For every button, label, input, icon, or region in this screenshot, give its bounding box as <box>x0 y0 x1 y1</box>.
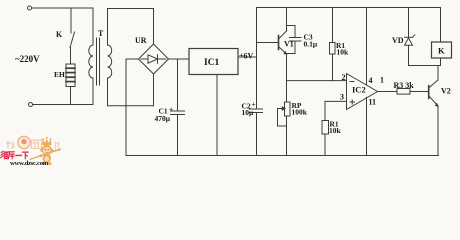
heater EH <box>66 64 75 105</box>
svg-text:4: 4 <box>369 76 373 85</box>
watermark mascot <box>30 137 62 165</box>
svg-text:V2: V2 <box>441 87 451 96</box>
svg-text:10k: 10k <box>329 126 342 135</box>
svg-text:K: K <box>56 30 63 39</box>
transformer T secondary <box>108 9 112 106</box>
wire collector node <box>409 65 441 67</box>
svg-text:UR: UR <box>135 36 147 45</box>
svg-text:K: K <box>438 46 445 56</box>
watermark faded background glyphs <box>6 140 42 149</box>
capacitor C1 <box>171 59 185 156</box>
svg-text:11: 11 <box>369 98 377 107</box>
svg-text:10μ: 10μ <box>242 108 255 117</box>
wire bottom rail 220V <box>33 104 94 106</box>
svg-text:2: 2 <box>342 73 346 82</box>
svg-text:470μ: 470μ <box>155 114 171 123</box>
wire DC plus to IC1 <box>169 58 190 60</box>
svg-text:R3 3k: R3 3k <box>394 81 415 90</box>
wire pin11 to ground <box>366 97 368 155</box>
switch K <box>70 8 75 64</box>
svg-text:T: T <box>98 29 104 38</box>
wire node pin3 bus <box>325 100 347 102</box>
svg-text:100k: 100k <box>292 108 308 117</box>
relay K <box>432 8 452 66</box>
svg-text:V1: V1 <box>284 40 294 49</box>
wire node pin2 bus <box>287 80 347 82</box>
capacitor C3 <box>287 26 302 54</box>
transistor V2 <box>429 66 438 156</box>
wire secondary top to bridge <box>108 9 154 45</box>
svg-text:~220V: ~220V <box>15 54 40 64</box>
wire IC1 ground lead <box>216 75 218 156</box>
regulator IC1 <box>189 49 238 75</box>
wire DC minus to ground rail <box>126 59 139 156</box>
transistor V1 <box>257 8 287 103</box>
wire pin1 output <box>378 91 398 93</box>
svg-text:EH: EH <box>54 70 65 79</box>
svg-text:3: 3 <box>340 92 344 101</box>
transformer core <box>96 38 98 85</box>
svg-text:IC1: IC1 <box>204 58 220 68</box>
svg-text:IC2: IC2 <box>352 85 366 95</box>
svg-text:0.1μ: 0.1μ <box>304 40 318 49</box>
svg-text:VD: VD <box>392 36 404 45</box>
wire pin4 to +6V <box>366 8 368 86</box>
potentiometer RP <box>278 102 291 156</box>
wire bridge bottom lead <box>153 74 155 106</box>
terminal bottom-left <box>29 103 33 107</box>
svg-text:10k: 10k <box>337 48 350 57</box>
watermark extra faded marks <box>54 142 60 151</box>
watermark logo circle <box>18 136 30 148</box>
wire IC1 output +6V <box>238 56 257 58</box>
resistor R1 lower <box>322 101 329 155</box>
resistor R3 <box>397 89 429 95</box>
resistor R1 upper <box>330 8 336 81</box>
svg-text:+: + <box>169 105 173 114</box>
wire +6V top rail <box>257 7 441 9</box>
transformer T primary <box>89 8 93 105</box>
wire secondary bottom to bridge <box>108 105 154 107</box>
watermark red text wei-ku-yi-xia <box>1 151 29 159</box>
ground rail <box>126 155 439 157</box>
op-amp IC2 <box>347 74 378 110</box>
diode VD <box>405 8 415 66</box>
svg-text:1: 1 <box>380 76 384 85</box>
svg-text:+6V: +6V <box>239 52 254 61</box>
wire +6V vertical rail <box>256 8 258 110</box>
terminal top-left <box>28 6 32 10</box>
capacitor C2 <box>250 109 263 156</box>
bridge rectifier UR <box>139 44 169 74</box>
svg-text:www.dzsc.com: www.dzsc.com <box>10 160 49 166</box>
wire top rail 220V <box>32 7 94 9</box>
